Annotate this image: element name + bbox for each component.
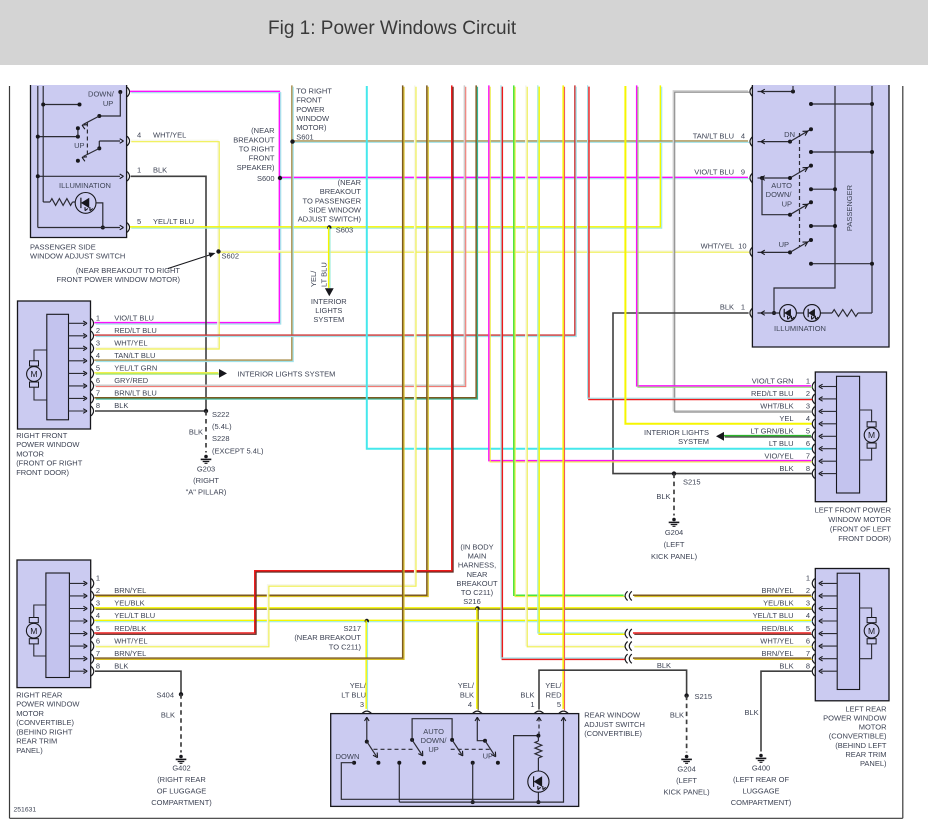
diagram frame left border [9,86,11,818]
arrow to interior lights system (right) [219,369,227,378]
inline connector on M4 pin2 wire [625,591,628,600]
svg-text:TAN/LT BLU: TAN/LT BLU [693,131,734,140]
svg-text:INTERIOR LIGHTS: INTERIOR LIGHTS [644,428,709,437]
svg-text:S215: S215 [683,478,701,487]
wire WHT/YEL: connector to M4 pin6 [633,645,812,646]
svg-text:LT GRN/BLK: LT GRN/BLK [751,427,794,436]
wire BLK: M1 pin8 to S222 [95,410,206,412]
wire BLK (dashed) S404 to G402 [180,694,182,752]
svg-text:M: M [868,626,875,636]
wire RED/BLK: connector to M4 pin5 [633,633,812,634]
SW1 lamp to pin5 link [96,203,103,228]
motor M2 LEFT FRONT POWER WINDOW MOTOR pin 2 RED/LT BLU [821,398,837,400]
wire GRY/RED: M1 pin6 to off-page top [94,85,465,386]
motor M1 RIGHT FRONT POWER WINDOW MOTOR pin 3 WHT/YEL [69,347,86,349]
svg-text:S215: S215 [695,692,713,701]
svg-text:INTERIOR: INTERIOR [311,297,347,306]
wire LT GRN/BLK: M2 pin5 to interior lights arrow [723,436,812,437]
splice S602 [216,249,220,253]
motor M2 LEFT FRONT POWER WINDOW MOTOR connector block [837,376,860,493]
motor M3 RIGHT REAR POWER WINDOW MOTOR pin 7 BRN/YEL [69,658,85,660]
svg-text:(NEAR BREAKOUT TO RIGHT: (NEAR BREAKOUT TO RIGHT [76,266,181,275]
svg-text:BLK: BLK [657,661,671,670]
wire YEL/LT BLU: S603 stub down to interior lights arrow [329,227,330,289]
motor M4 LEFT REAR POWER WINDOW MOTOR pin 6 WHT/YEL [821,645,837,647]
svg-text:3: 3 [96,339,100,348]
SW2 illumination resistor [832,310,858,317]
wire YEL/LT BLU: off-page top to connector, feeds M4 pin5 [538,85,625,634]
svg-text:PANEL): PANEL) [16,746,43,755]
svg-text:TO PASSENGER: TO PASSENGER [303,196,362,205]
svg-text:UP: UP [483,751,493,760]
motor M2 LEFT FRONT POWER WINDOW MOTOR body [815,372,886,502]
svg-text:FRONT POWER WINDOW MOTOR): FRONT POWER WINDOW MOTOR) [57,275,181,284]
SW1 DOWN/UP switch arm and top pin link [118,90,122,94]
svg-text:TAN/LT BLU: TAN/LT BLU [114,351,155,360]
svg-text:10: 10 [738,242,746,251]
svg-text:6: 6 [806,636,810,645]
svg-text:VIO/LT BLU: VIO/LT BLU [114,314,154,323]
svg-text:BLK: BLK [460,690,474,699]
SW1 illumination lamp [73,201,76,203]
svg-text:KICK PANEL): KICK PANEL) [664,787,711,796]
diagram frame right border [902,86,904,818]
SW2 pin 1 internal lead with illumination lamps [758,312,833,314]
splice S404 [179,692,183,696]
svg-text:TO RIGHT: TO RIGHT [239,145,275,154]
svg-text:(NEAR: (NEAR [251,126,275,135]
wire RED/LT BLU: M1 pin2 to off-page top [94,85,576,336]
wire YEL/BLK: S216 down to SW3 pin4 [477,608,478,710]
svg-text:DOWN/: DOWN/ [88,90,115,99]
motor M4 LEFT REAR POWER WINDOW MOTOR pin 4 YEL/LT BLU [821,620,837,622]
svg-text:G402: G402 [172,763,190,772]
SW1 pin brackets [127,87,129,97]
svg-text:RIGHT REAR: RIGHT REAR [16,690,63,699]
svg-text:RED: RED [546,690,562,699]
svg-text:LUGGAGE: LUGGAGE [742,786,779,795]
motor M4 LEFT REAR POWER WINDOW MOTOR pin 7 BRN/YEL [821,658,837,660]
wire WHT/YEL: S602 to SW2 pin10 [218,251,749,252]
svg-text:WHT/YEL: WHT/YEL [114,636,147,645]
svg-text:1: 1 [530,700,534,709]
svg-text:AUTO: AUTO [771,181,792,190]
svg-text:SYSTEM: SYSTEM [678,437,709,446]
motor M3 RIGHT REAR POWER WINDOW MOTOR pin 8 BLK [69,670,85,672]
svg-text:4: 4 [741,131,745,140]
svg-text:MOTOR): MOTOR) [296,123,327,132]
svg-text:(5.4L): (5.4L) [212,422,232,431]
motor M2 LEFT FRONT POWER WINDOW MOTOR pin 4 YEL [821,423,837,425]
svg-text:BREAKOUT: BREAKOUT [233,135,275,144]
splice S601 [290,139,294,143]
wire WHT/YEL: M3 pin6 to off-page top [94,85,416,646]
svg-text:BREAKOUT: BREAKOUT [456,579,498,588]
svg-text:LT BLU: LT BLU [769,439,794,448]
motor M4 LEFT REAR POWER WINDOW MOTOR pin 2 BRN/YEL [821,595,837,597]
svg-text:5: 5 [806,624,810,633]
svg-text:RED/LT BLU: RED/LT BLU [114,326,157,335]
svg-text:BRN/YEL: BRN/YEL [114,649,146,658]
motor M4 LEFT REAR POWER WINDOW MOTOR pin 1 [821,582,837,584]
svg-text:ILLUMINATION: ILLUMINATION [774,324,826,333]
wire VIO/LT BLU: S600 to SW2 pin9 [279,177,749,178]
SW2 contact rail y=263 [811,263,872,265]
svg-text:FRONT DOOR): FRONT DOOR) [838,534,891,543]
svg-text:1: 1 [741,303,745,312]
svg-text:G400: G400 [752,763,770,772]
ground G204 (rear) [685,755,689,759]
svg-text:S222: S222 [212,410,230,419]
wire VIO/YEL: off-page top to M2 pin7 [489,85,812,462]
motor M1 RIGHT FRONT POWER WINDOW MOTOR pin 1 VIO/LT BLU [69,322,86,324]
svg-text:REAR TRIM: REAR TRIM [16,737,57,746]
inline connector on M4 pin5 wire [625,629,628,638]
svg-text:LT BLU: LT BLU [341,690,366,699]
splice S217 [365,619,369,623]
SW3 pin 4 internal lead and UP arm [477,718,485,741]
SW2 contact rail y=152 [811,151,872,153]
ground G400 [759,754,763,758]
arrow to interior lights system (down) [325,288,334,296]
svg-text:(LEFT: (LEFT [676,776,697,785]
svg-text:1: 1 [137,166,141,175]
motor M1 RIGHT FRONT POWER WINDOW MOTOR connector block [47,314,69,420]
svg-text:PASSENGER SIDE: PASSENGER SIDE [30,242,96,251]
svg-text:TO C211): TO C211) [461,588,494,597]
SW1 internal contact rail y=104.5 [43,104,79,106]
svg-text:BRN/YEL: BRN/YEL [761,649,793,658]
ground G204 (front) [672,518,676,522]
SW1 pin 4 internal lead [99,140,120,142]
svg-text:6: 6 [96,376,100,385]
svg-text:KICK PANEL): KICK PANEL) [651,552,698,561]
SW1 mechanical link (dashed) [86,123,88,157]
wire YEL/BLK: M3 pin3 to M4 pin3 bus with S216 [94,608,812,609]
svg-text:G204: G204 [677,764,695,773]
svg-text:(RIGHT: (RIGHT [193,476,219,485]
svg-text:OF LUGGAGE: OF LUGGAGE [157,786,207,795]
svg-text:YEL/LT BLU: YEL/LT BLU [153,217,194,226]
svg-text:YEL/: YEL/ [350,681,367,690]
motor M1 RIGHT FRONT POWER WINDOW MOTOR motor symbol M [27,367,42,382]
motor M2 LEFT FRONT POWER WINDOW MOTOR motor symbol M [864,428,879,443]
svg-text:VIO/LT GRN: VIO/LT GRN [752,377,794,386]
motor M2 LEFT FRONT POWER WINDOW MOTOR pin 8 BLK [821,473,837,475]
svg-text:BLK: BLK [161,710,175,719]
motor M4 LEFT REAR POWER WINDOW MOTOR pin 8 BLK [821,670,837,672]
svg-text:3: 3 [96,599,100,608]
svg-text:8: 8 [806,464,810,473]
svg-text:YEL/LT GRN: YEL/LT GRN [114,364,157,373]
wire BLK (dashed) S222 to G203 [205,411,207,453]
svg-text:1: 1 [806,377,810,386]
motor M4 LEFT REAR POWER WINDOW MOTOR pin 3 YEL/BLK [821,608,837,610]
motor M3 RIGHT REAR POWER WINDOW MOTOR pin 2 BRN/YEL [69,595,85,597]
svg-text:LEFT FRONT POWER: LEFT FRONT POWER [815,506,892,515]
svg-text:FRONT: FRONT [296,96,322,105]
svg-text:(CONVERTIBLE): (CONVERTIBLE) [16,718,74,727]
svg-text:UP: UP [782,199,792,208]
svg-text:4: 4 [96,351,100,360]
svg-text:SIDE WINDOW: SIDE WINDOW [309,206,362,215]
svg-text:BLK: BLK [656,492,670,501]
svg-text:2: 2 [806,389,810,398]
motor M1 RIGHT FRONT POWER WINDOW MOTOR pin 8 BLK [69,410,86,412]
svg-text:BLK: BLK [745,708,759,717]
svg-text:RED/BLK: RED/BLK [114,624,146,633]
svg-text:WINDOW MOTOR: WINDOW MOTOR [828,515,891,524]
motor M1 RIGHT FRONT POWER WINDOW MOTOR pin 2 RED/LT BLU [69,335,86,337]
motor M3 RIGHT REAR POWER WINDOW MOTOR pin 3 YEL/BLK [69,608,85,610]
wire TAN/LT BLU: off-page top through S601 to M1 pin4 [94,85,293,361]
svg-text:WHT/YEL: WHT/YEL [114,339,147,348]
svg-text:WHT/BLK: WHT/BLK [760,402,793,411]
svg-text:ADJUST SWITCH): ADJUST SWITCH) [298,215,362,224]
svg-text:ILLUMINATION: ILLUMINATION [59,181,111,190]
SW1 internal bus A [37,86,39,228]
wire WHT/YEL: SW1 pin4 to S602 to M1 pin3 [94,140,219,349]
svg-text:RIGHT FRONT: RIGHT FRONT [16,431,68,440]
svg-text:UP: UP [103,99,113,108]
svg-text:7: 7 [806,451,810,460]
motor M1 RIGHT FRONT POWER WINDOW MOTOR body [18,301,91,429]
svg-text:5: 5 [806,427,810,436]
svg-text:BLK: BLK [114,661,128,670]
svg-text:DOWN/: DOWN/ [421,736,448,745]
svg-text:HARNESS,: HARNESS, [458,561,496,570]
svg-text:VIO/LT BLU: VIO/LT BLU [694,168,734,177]
inline connector on M4 pin6 wire [625,642,628,651]
wire YEL: off-page top to M2 pin4 [625,86,811,424]
svg-text:251631: 251631 [14,807,37,814]
svg-text:Fig 1: Power Windows Circuit: Fig 1: Power Windows Circuit [268,18,517,39]
switch SW1 PASSENGER SIDE WINDOW ADJUST SWITCH body (cut at top) [31,85,127,238]
svg-text:(BEHIND LEFT: (BEHIND LEFT [835,741,887,750]
svg-text:SPEAKER): SPEAKER) [237,163,275,172]
svg-text:LIGHTS: LIGHTS [315,306,342,315]
SW3 pin brackets [362,711,372,713]
motor M3 RIGHT REAR POWER WINDOW MOTOR motor symbol M [26,623,41,638]
svg-text:POWER: POWER [296,105,325,114]
wire BLK (dashed) S215 to G204 (rear) [686,696,688,753]
wire YEL/LT GRN: M1 pin5 to interior lights arrow [94,373,219,374]
wire BRN/YEL: M3 pin7 to off-page top [94,85,404,659]
svg-text:(NEAR BREAKOUT: (NEAR BREAKOUT [294,633,361,642]
svg-text:3: 3 [806,599,810,608]
svg-text:G203: G203 [197,464,215,473]
motor M1 RIGHT FRONT POWER WINDOW MOTOR pin 6 GRY/RED [69,385,86,387]
wire RED/BLK: M3 pin5 to off-page top [94,85,453,634]
motor M4 LEFT REAR POWER WINDOW MOTOR body [815,569,889,701]
svg-text:PANEL): PANEL) [860,759,887,768]
svg-text:WINDOW ADJUST SWITCH: WINDOW ADJUST SWITCH [30,252,125,261]
SW2 UP switch arm [758,251,791,253]
SW3 auto down/up U-link and arms [410,738,414,742]
svg-text:(LEFT: (LEFT [664,540,685,549]
svg-text:4: 4 [137,130,141,139]
svg-text:COMPARTMENT): COMPARTMENT) [731,798,792,807]
svg-text:GRY/RED: GRY/RED [114,376,149,385]
svg-text:FRONT: FRONT [249,154,275,163]
svg-text:S404: S404 [156,691,174,700]
svg-text:S228: S228 [212,434,230,443]
SW2 DN switch arm [758,141,791,143]
svg-text:UP: UP [779,240,789,249]
svg-text:REAR TRIM: REAR TRIM [845,750,886,759]
SW2 pin 9 internal lead and arm [758,177,791,179]
svg-text:MOTOR: MOTOR [16,709,44,718]
svg-text:RED/BLK: RED/BLK [761,624,793,633]
svg-text:WINDOW: WINDOW [296,114,330,123]
svg-text:DOWN: DOWN [336,752,360,761]
splice S215 (rear) [684,693,688,697]
svg-text:1: 1 [96,574,100,583]
svg-text:BLK: BLK [720,303,734,312]
wire YEL/LT BLU: SW1 pin5 to S603 and off-page top [130,85,662,228]
SW2 pin brackets [750,87,752,97]
svg-text:TO C211): TO C211) [329,642,362,651]
ground G203 [204,455,208,459]
svg-text:1: 1 [96,314,100,323]
SW2 contact rail y=104 [811,103,872,105]
svg-text:(FRONT OF RIGHT: (FRONT OF RIGHT [16,459,83,468]
svg-text:(CONVERTIBLE): (CONVERTIBLE) [584,729,642,738]
svg-text:2: 2 [96,326,100,335]
SW2 mechanical link (dashed) [799,133,801,247]
svg-text:4: 4 [806,611,810,620]
svg-text:RED/LT BLU: RED/LT BLU [751,389,794,398]
splice S603 [327,225,331,229]
motor M3 RIGHT REAR POWER WINDOW MOTOR pin 4 YEL/LT BLU [69,620,85,622]
svg-text:LEFT REAR: LEFT REAR [845,704,887,713]
svg-text:REAR WINDOW: REAR WINDOW [584,711,641,720]
SW3 pin 3 internal lead and arm [366,718,368,742]
svg-text:POWER WINDOW: POWER WINDOW [16,440,80,449]
svg-text:COMPARTMENT): COMPARTMENT) [151,798,212,807]
motor M2 LEFT FRONT POWER WINDOW MOTOR pin 7 VIO/YEL [821,460,837,462]
svg-text:M: M [30,369,37,379]
motor M1 RIGHT FRONT POWER WINDOW MOTOR pin 7 BRN/LT BLU [69,397,86,399]
svg-text:M: M [868,430,875,440]
SW3 DOWN contact wire to bus [352,761,356,765]
svg-text:(EXCEPT 5.4L): (EXCEPT 5.4L) [212,446,264,455]
svg-text:BLK: BLK [114,401,128,410]
wire BRN/YEL: M3 pin2 to off-page top [94,85,428,596]
SW1 pin 1 internal lead [38,175,120,177]
SW2 contact rail y=189.2 [811,188,835,190]
wire RED/LT BLU: off-page top to connector, feeds M4 pin7 [501,85,625,659]
svg-text:(LEFT REAR OF: (LEFT REAR OF [733,775,790,784]
motor M1 RIGHT FRONT POWER WINDOW MOTOR pin 4 TAN/LT BLU [69,360,86,362]
motor M4 LEFT REAR POWER WINDOW MOTOR connector block [837,573,859,689]
svg-text:YEL/BLK: YEL/BLK [114,599,144,608]
wire BLK: M4 pin8 to G400 [761,671,812,751]
motor M3 RIGHT REAR POWER WINDOW MOTOR pin 1 [69,582,85,584]
svg-text:S600: S600 [257,174,275,183]
wire YEL/RED: off-page top to SW3 pin5 [563,85,564,710]
wire BLK: SW2 pin1 to M2 pin8 via S215 [613,313,812,474]
svg-text:5: 5 [557,700,561,709]
motor M2 LEFT FRONT POWER WINDOW MOTOR pin 6 LT BLU [821,448,837,450]
svg-text:MAIN: MAIN [468,552,487,561]
splice S215 (front) [672,471,676,475]
SW1 internal bus B [42,86,44,202]
svg-text:5: 5 [96,624,100,633]
wire YEL/LT BLU: M3 pin4 to M4 pin4 bus with S217 [94,620,812,621]
switch SW2 PASSENGER window switch body (cut at top) [752,85,889,347]
splice S216 [475,606,479,610]
svg-text:POWER WINDOW: POWER WINDOW [823,714,887,723]
svg-text:PASSENGER: PASSENGER [845,184,854,231]
svg-text:AUTO: AUTO [423,727,444,736]
page header bar [0,0,928,65]
wire YEL/LT BLU: S217 down to SW3 pin3 [366,620,367,710]
svg-text:3: 3 [360,700,364,709]
arrow to interior lights system (left) [716,432,724,441]
SW3 contact riser to bottom bus [471,761,475,765]
SW2 auto-down arm branch [762,178,790,215]
SW2 top pin internal lead [758,91,794,93]
svg-text:5: 5 [96,364,100,373]
svg-text:YEL/: YEL/ [458,681,475,690]
svg-text:S217: S217 [343,624,361,633]
wire BRN/YEL: connector to M4 pin2 [633,595,812,596]
SW3 pin 5 internal lead and bottom bus [399,718,563,803]
wire BRN/LT BLU: M1 pin7 to off-page top [94,85,477,399]
svg-text:BRN/YEL: BRN/YEL [114,586,146,595]
svg-text:(CONVERTIBLE): (CONVERTIBLE) [829,732,887,741]
SW2 internal bus 2 [871,86,873,313]
svg-text:YEL/: YEL/ [309,270,318,287]
motor M3 RIGHT REAR POWER WINDOW MOTOR pin 6 WHT/YEL [69,645,85,647]
wire VIO/LT BLU: SW1 top pin to S600 to M1 pin1 [94,91,280,324]
motor M4 LEFT REAR POWER WINDOW MOTOR pin 5 RED/BLK [821,633,837,635]
wire BRN/YEL: connector to M4 pin7 [633,658,812,659]
svg-text:S601: S601 [296,132,314,141]
svg-text:NEAR: NEAR [467,570,488,579]
svg-text:M: M [30,626,37,636]
motor M3 RIGHT REAR POWER WINDOW MOTOR body [17,560,91,688]
svg-text:BREAKOUT: BREAKOUT [320,187,362,196]
svg-text:4: 4 [96,611,100,620]
wire WHT/YEL: off-page top to connector, feeds M4 pin6 [526,85,625,646]
svg-text:3: 3 [806,402,810,411]
svg-text:BLK: BLK [153,166,167,175]
wire TAN/LT BLU: S601 to SW2 pin4 [292,141,749,142]
SW3 mechanical link 2 (dashed) [451,748,491,750]
SW3 pin 1 internal lead (dashed) with resistor and lamp [538,718,540,736]
svg-text:VIO/YEL: VIO/YEL [764,451,793,460]
svg-text:BLK: BLK [520,690,534,699]
wire WHT/BLK: SW2 top pin to M2 pin3 [673,91,812,412]
svg-text:7: 7 [96,649,100,658]
svg-text:MOTOR: MOTOR [859,723,887,732]
wire VIO/LT GRN: off-page top to M2 pin1 [637,85,813,387]
svg-text:"A" PILLAR): "A" PILLAR) [186,488,227,497]
motor M2 LEFT FRONT POWER WINDOW MOTOR pin 5 LT GRN/BLK [821,435,837,437]
wire BLK (dashed) S215 to G204 [673,474,675,516]
svg-text:POWER WINDOW: POWER WINDOW [16,700,80,709]
svg-text:9: 9 [741,168,745,177]
svg-text:TO RIGHT: TO RIGHT [296,86,332,95]
motor M2 LEFT FRONT POWER WINDOW MOTOR pin 1 VIO/LT GRN [821,386,837,388]
wire LT BLU: off-page top to M2 pin6 [367,86,812,449]
svg-text:7: 7 [806,649,810,658]
SW2 internal bus 1 [774,86,835,313]
svg-text:2: 2 [806,586,810,595]
svg-text:4: 4 [468,700,472,709]
